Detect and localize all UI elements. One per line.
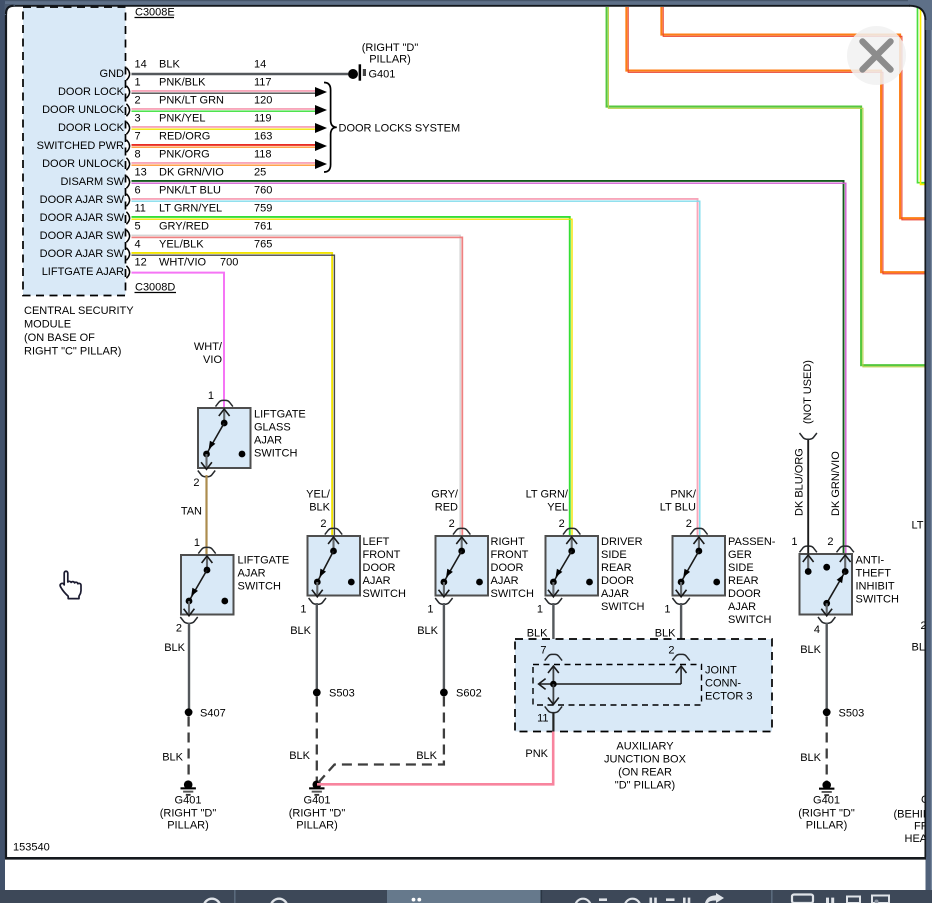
svg-text:7: 7 [540,645,546,657]
svg-text:760: 760 [254,185,272,197]
svg-text:ECTOR 3: ECTOR 3 [705,691,752,703]
svg-text:RED: RED [435,502,458,514]
wire YEL/BLK 765 to left front door switch [132,253,335,535]
wire BLK right front to S602 [417,603,444,689]
label DK BLU/ORG rotated [794,448,806,516]
joint connector pin 2 [668,645,689,661]
svg-text:PNK/: PNK/ [670,489,697,501]
switch left front door ajar box [308,536,361,596]
ground G401 column anti-theft [819,781,834,796]
wire orange 1 [626,7,925,274]
svg-text:6: 6 [135,185,141,197]
connector label C3008D [135,282,177,294]
module pin 5 DOOR AJAR SW labels [40,221,273,243]
svg-text:LT GRN/YEL: LT GRN/YEL [159,203,222,215]
svg-text:DRIVER: DRIVER [601,536,643,548]
mouse cursor hand pointer [60,571,81,598]
svg-text:GRY/RED: GRY/RED [159,221,209,233]
svg-text:S503: S503 [839,708,865,720]
svg-text:BLK: BLK [416,750,437,762]
switch driver rear labels [559,518,645,613]
svg-text:DOOR UNLOCK: DOOR UNLOCK [42,104,125,116]
svg-text:LT GRN/: LT GRN/ [526,489,569,501]
module C3008 central security module box [23,7,126,296]
svg-text:GRY/: GRY/ [431,489,459,501]
svg-text:7: 7 [135,131,141,143]
svg-text:2: 2 [193,477,199,489]
module pin 14 GND labels [100,59,267,81]
svg-text:2: 2 [176,623,182,635]
svg-text:SWITCH: SWITCH [601,601,644,613]
svg-text:CENTRAL SECURITY: CENTRAL SECURITY [24,305,134,317]
switch right front labels [449,518,534,600]
label GRY/RED [431,489,459,514]
svg-text:(NOT USED): (NOT USED) [802,360,814,424]
svg-text:LIFTGATE: LIFTGATE [254,409,306,421]
wire green from top right [607,7,925,367]
svg-text:1: 1 [135,77,141,89]
svg-text:119: 119 [254,113,272,125]
module pin 3 DOOR LOCK labels [58,113,272,135]
switch liftgate ajar pin arcs [180,547,215,623]
wire WHT/VIO 700 to liftgate glass ajar switch [132,271,225,407]
svg-text:DOOR: DOOR [491,562,524,574]
svg-text:14: 14 [135,59,147,71]
wire BLK driver rear to joint connector pin 7 [527,603,554,654]
wire BLK passenger rear to joint connector pin 2 [655,603,681,654]
svg-text:SIDE: SIDE [728,562,754,574]
svg-text:BLK: BLK [290,625,311,637]
svg-text:2: 2 [686,518,692,530]
svg-text:DOOR AJAR SW: DOOR AJAR SW [40,194,125,206]
svg-text:5: 5 [135,221,141,233]
svg-text:AJAR: AJAR [363,575,391,587]
svg-text:YEL: YEL [547,502,568,514]
ground G401 right D pillar (top) [348,64,366,80]
svg-text:1: 1 [537,604,543,616]
diagram number 153540 [13,842,50,854]
svg-text:PILLAR): PILLAR) [296,820,338,832]
module pin 7 SWITCHED PWR labels [37,131,273,153]
svg-text:SWITCH: SWITCH [491,588,534,600]
switch right front door ajar box [436,536,489,596]
wire dashed BLK S503 to ground [289,697,317,781]
module pin 2 DOOR UNLOCK labels [42,95,272,117]
svg-text:SWITCH: SWITCH [363,588,406,600]
svg-text:BLK: BLK [164,642,185,654]
svg-text:S503: S503 [329,688,355,700]
switch passenger side rear door ajar internals [676,537,720,597]
svg-text:DK GRN/VIO: DK GRN/VIO [159,167,224,179]
svg-text:PNK/YEL: PNK/YEL [159,113,205,125]
wire DK GRN/VIO 25 to anti-theft switch pin 2 [132,181,846,553]
svg-text:GLASS: GLASS [254,422,291,434]
svg-text:120: 120 [254,95,272,107]
label LT GRN/YEL [526,489,569,514]
joint connector pin 7 [540,645,562,661]
svg-text:25: 25 [254,167,266,179]
svg-text:PNK: PNK [525,748,548,760]
svg-text:AJAR: AJAR [491,575,519,587]
svg-text:WHT/VIO: WHT/VIO [159,257,206,269]
right edge cut labels [894,520,932,846]
svg-text:AUXILIARY: AUXILIARY [616,741,674,753]
wire LT GRN/YEL 759 to driver rear door switch [132,217,573,535]
wire PNK/LT BLU 760 to passenger rear door switch [132,199,700,535]
switch driver side rear door ajar internals [548,537,593,597]
close button [847,26,906,85]
svg-text:118: 118 [254,149,272,161]
svg-text:13: 13 [135,167,147,179]
svg-text:GND: GND [100,68,125,80]
svg-text:PNK/ORG: PNK/ORG [159,149,210,161]
svg-text:1: 1 [427,604,433,616]
wire orange 2 [661,7,925,220]
module pin 6 DOOR AJAR SW labels [40,185,273,207]
wire BLK left front to S503 [290,603,317,689]
module pin 1 DOOR LOCK labels [58,77,272,99]
svg-text:BLK: BLK [162,752,183,764]
svg-text:BLK: BLK [309,502,330,514]
svg-text:TAN: TAN [181,506,202,518]
joint connector 3 labels [705,665,752,703]
svg-text:12: 12 [135,257,147,269]
svg-text:DOOR AJAR SW: DOOR AJAR SW [40,248,125,260]
svg-text:DOOR AJAR SW: DOOR AJAR SW [40,212,125,224]
label PNK/LT BLU [660,489,697,514]
switch passenger side rear door ajar box [673,536,726,596]
svg-text:DOOR UNLOCK: DOOR UNLOCK [42,158,125,170]
svg-text:REAR: REAR [601,562,632,574]
anti-theft labels [791,536,899,636]
ground G401 column2 [309,780,324,795]
toolbar [0,890,932,903]
wire to door locks system arrow y=128 [132,123,328,133]
svg-text:"D" PILLAR): "D" PILLAR) [615,780,675,792]
svg-text:DOOR LOCKS SYSTEM: DOOR LOCKS SYSTEM [339,123,461,135]
svg-text:ANTI-: ANTI- [856,555,885,567]
svg-text:REAR: REAR [728,575,759,587]
svg-text:4: 4 [135,239,141,251]
svg-text:FRONT: FRONT [491,549,529,561]
svg-text:VIO: VIO [203,354,222,366]
svg-text:SWITCH: SWITCH [856,594,899,606]
wire BLK anti-theft to S503 [800,623,826,710]
svg-text:11: 11 [537,713,548,725]
svg-text:SWITCHED PWR: SWITCHED PWR [37,140,124,152]
wire BLK liftgate ajar to S407 [164,623,189,710]
splice S407 [185,708,226,720]
label (NOT USED) rotated [802,360,814,424]
switch left front door ajar pin arcs [309,528,343,604]
svg-text:G401: G401 [813,795,840,807]
switch liftgate glass ajar pin arcs [198,400,233,476]
svg-text:JOINT: JOINT [705,665,737,677]
svg-text:PNK/LT GRN: PNK/LT GRN [159,95,224,107]
svg-text:765: 765 [254,239,272,251]
svg-text:BLK: BLK [417,625,438,637]
wire dashed BLK to ground (anti-theft) [800,717,826,782]
brace door locks system [324,83,460,173]
svg-text:AJAR: AJAR [254,435,282,447]
wire to door locks system arrow y=146 [132,141,328,151]
svg-text:761: 761 [254,221,272,233]
module pin 8 DOOR UNLOCK labels [42,149,271,171]
svg-text:1: 1 [791,536,797,548]
switch liftgate ajar internals [184,556,229,616]
svg-text:PASSEN-: PASSEN- [728,536,776,548]
svg-text:(ON REAR: (ON REAR [618,767,672,779]
svg-text:RIGHT: RIGHT [491,536,526,548]
svg-text:SWITCH: SWITCH [254,448,297,460]
svg-text:INHIBIT: INHIBIT [856,581,895,593]
joint connector internals [539,666,687,705]
svg-text:759: 759 [254,203,272,215]
module pin 12 LIFTGATE AJAR labels [42,257,239,279]
splice S602 [440,688,482,700]
svg-text:(ON BASE OF: (ON BASE OF [24,332,95,344]
auxiliary junction box labels [604,741,687,792]
svg-text:DOOR LOCK: DOOR LOCK [58,122,125,134]
svg-text:RIGHT "C" PILLAR): RIGHT "C" PILLAR) [24,346,121,358]
switch liftgate glass ajar internals [201,409,245,469]
svg-text:1: 1 [208,390,214,402]
wire stub not used to anti-theft pin 1 [800,433,817,554]
anti-theft inhibit switch internals [803,555,851,616]
svg-text:DOOR: DOOR [601,575,634,587]
svg-text:163: 163 [254,131,272,143]
svg-text:PNK/LT BLU: PNK/LT BLU [159,185,221,197]
svg-text:PNK/BLK: PNK/BLK [159,77,206,89]
svg-text:2: 2 [449,518,455,530]
svg-text:LIFTGATE: LIFTGATE [238,555,290,567]
wire PNK joint connector pin 11 to ground [317,732,553,785]
wire to door locks system arrow y=92 [132,87,328,97]
svg-text:1: 1 [194,537,200,549]
label YEL/BLK [306,489,331,514]
module pin 11 DOOR AJAR SW labels [40,203,273,225]
svg-text:153540: 153540 [13,842,50,854]
svg-text:LIFTGATE AJAR: LIFTGATE AJAR [42,266,124,278]
svg-text:FRONT: FRONT [363,549,401,561]
svg-text:(RIGHT "D": (RIGHT "D" [798,808,855,820]
svg-text:MODULE: MODULE [24,319,71,331]
svg-text:DOOR: DOOR [728,588,761,600]
svg-text:2: 2 [320,518,326,530]
switch passenger side rear door ajar pin arcs [672,528,707,604]
ground G401 column1 labels [160,795,217,832]
switch right front door ajar internals [439,537,483,597]
svg-text:BLK: BLK [289,750,310,762]
svg-text:S602: S602 [456,688,482,700]
splice S503 (anti-theft) [823,708,864,720]
wire to door locks system arrow y=164 [132,159,328,169]
switch driver side rear door ajar box [546,536,599,596]
ground G401 anti-theft labels [798,795,855,832]
svg-text:(RIGHT "D": (RIGHT "D" [289,808,346,820]
svg-text:CONN-: CONN- [705,678,741,690]
wire BLK 14 to ground G401 [132,73,349,76]
svg-text:2: 2 [135,95,141,107]
svg-text:PILLAR): PILLAR) [167,820,209,832]
svg-text:WHT/: WHT/ [194,341,223,353]
wire to door locks system arrow y=110 [132,105,328,115]
svg-text:SIDE: SIDE [601,549,627,561]
svg-text:117: 117 [254,77,272,89]
joint connector 3 inner box [533,665,702,706]
svg-text:THEFT: THEFT [856,568,892,580]
svg-text:8: 8 [135,149,141,161]
svg-text:AJAR: AJAR [601,588,629,600]
text central security module [24,305,134,358]
switch left front labels [320,518,406,600]
svg-text:PILLAR): PILLAR) [806,820,848,832]
svg-text:1: 1 [300,604,306,616]
svg-text:BLK: BLK [800,644,821,656]
label TAN [181,506,202,518]
svg-text:YEL/: YEL/ [306,489,331,501]
svg-text:S407: S407 [200,708,226,720]
svg-text:AJAR: AJAR [238,568,266,580]
svg-text:DISARM SW: DISARM SW [60,176,124,188]
svg-text:2: 2 [559,518,565,530]
svg-text:SWITCH: SWITCH [728,614,771,626]
svg-text:2: 2 [827,536,833,548]
label WHT/VIO [194,341,223,366]
svg-text:3: 3 [135,113,141,125]
svg-text:DK BLU/ORG: DK BLU/ORG [794,448,806,516]
svg-text:JUNCTION BOX: JUNCTION BOX [604,754,687,766]
ground G401 (top) labels [362,42,419,81]
junction box outer (auxiliary junction box) [515,639,772,732]
connector label C3008E [135,7,175,19]
wire dashed BLK S602 to ground [319,697,444,783]
svg-text:RED/ORG: RED/ORG [159,131,210,143]
svg-text:BLK: BLK [159,59,180,71]
svg-text:LT BLU: LT BLU [660,502,696,514]
svg-text:GER: GER [728,549,752,561]
switch liftgate ajar labels [176,537,289,635]
svg-text:1: 1 [664,604,670,616]
svg-text:DOOR LOCK: DOOR LOCK [58,86,125,98]
svg-text:G401: G401 [369,69,396,81]
svg-text:DK GRN/VIO: DK GRN/VIO [830,451,842,516]
switch right front door ajar pin arcs [435,528,470,604]
svg-text:PILLAR): PILLAR) [369,54,411,66]
ground G401 column1 [181,780,196,795]
joint connector pin 11 [537,706,562,731]
svg-text:SWITCH: SWITCH [238,581,281,593]
switch liftgate glass ajar box [198,408,251,468]
svg-text:DOOR AJAR SW: DOOR AJAR SW [40,230,125,242]
splice S503 [313,688,355,700]
svg-text:4: 4 [814,624,820,636]
switch liftgate ajar box [181,555,234,615]
svg-text:G401: G401 [175,795,202,807]
svg-text:G401: G401 [304,795,331,807]
wire GRY/RED 761 to right front door switch [132,235,463,535]
svg-text:C3008D: C3008D [135,282,175,294]
switch driver side rear door ajar pin arcs [545,528,581,604]
svg-text:(RIGHT "D": (RIGHT "D" [362,42,419,54]
wire TAN liftgate glass to liftgate ajar [205,475,207,554]
svg-text:BLK: BLK [655,628,676,640]
wire chartreuse right edge [918,7,926,184]
ground G401 column2 labels [289,795,346,832]
wire dashed BLK S407 to ground [162,717,188,781]
svg-text:YEL/BLK: YEL/BLK [159,239,204,251]
svg-text:11: 11 [135,203,146,215]
svg-text:(RIGHT "D": (RIGHT "D" [160,808,217,820]
svg-text:BLK: BLK [527,628,548,640]
module pin 13 DISARM SW labels [60,167,266,189]
svg-text:BLK: BLK [800,752,821,764]
svg-text:2: 2 [668,645,674,657]
anti-theft inhibit switch box [800,554,853,615]
anti-theft pin arcs [800,546,854,623]
svg-text:LEFT: LEFT [363,536,390,548]
svg-text:AJAR: AJAR [728,601,756,613]
switch passenger rear labels [686,518,776,626]
module pin 4 DOOR AJAR SW labels [40,239,273,261]
label DK GRN/VIO rotated [830,451,842,516]
switch left front door ajar internals [312,537,355,597]
switch liftgate glass ajar labels [193,390,305,489]
svg-text:DOOR: DOOR [363,562,396,574]
svg-text:14: 14 [254,59,266,71]
svg-text:700: 700 [220,257,238,269]
svg-text:C3008E: C3008E [135,7,175,19]
